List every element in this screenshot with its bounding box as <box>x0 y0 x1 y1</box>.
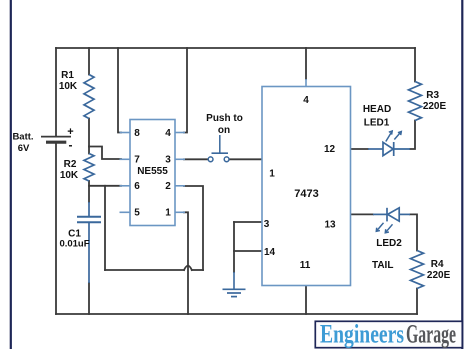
svg-text:7: 7 <box>134 155 140 166</box>
svg-text:TAIL: TAIL <box>372 260 393 271</box>
svg-text:Batt.: Batt. <box>12 132 33 143</box>
svg-text:12: 12 <box>324 144 336 155</box>
svg-text:11: 11 <box>300 260 311 271</box>
svg-text:5: 5 <box>134 208 140 219</box>
svg-text:0.01uF: 0.01uF <box>59 239 89 250</box>
svg-text:10K: 10K <box>59 81 78 92</box>
svg-text:R3: R3 <box>426 90 439 101</box>
svg-text:13: 13 <box>324 220 336 231</box>
svg-text:+: + <box>67 126 73 138</box>
svg-text:Engineers: Engineers <box>320 320 404 349</box>
svg-text:4: 4 <box>165 128 171 139</box>
svg-text:4: 4 <box>303 95 309 106</box>
svg-text:220E: 220E <box>427 270 451 281</box>
svg-text:NE555: NE555 <box>137 166 168 177</box>
svg-text:6V: 6V <box>18 143 30 154</box>
svg-text:14: 14 <box>264 247 276 258</box>
svg-text:3: 3 <box>165 155 171 166</box>
svg-text:HEAD: HEAD <box>363 104 391 115</box>
svg-text:R4: R4 <box>431 259 444 270</box>
svg-text:6: 6 <box>134 181 140 192</box>
svg-text:1: 1 <box>165 208 171 219</box>
svg-text:220E: 220E <box>423 101 447 112</box>
svg-text:Garage: Garage <box>406 320 456 349</box>
svg-text:8: 8 <box>134 128 140 139</box>
svg-text:7473: 7473 <box>294 188 318 200</box>
svg-text:R1: R1 <box>61 70 74 81</box>
svg-text:1: 1 <box>269 169 275 180</box>
svg-text:3: 3 <box>264 219 270 230</box>
svg-text:2: 2 <box>165 181 171 192</box>
svg-text:Push to: Push to <box>206 113 243 124</box>
svg-text:LED1: LED1 <box>364 118 390 129</box>
svg-text:LED2: LED2 <box>376 238 402 249</box>
svg-text:10K: 10K <box>60 170 79 181</box>
svg-text:R2: R2 <box>64 159 77 170</box>
svg-text:on: on <box>218 125 230 136</box>
svg-text:-: - <box>69 138 73 152</box>
